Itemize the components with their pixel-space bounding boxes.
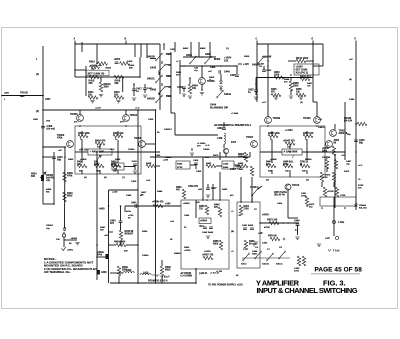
resistor R443	[274, 71, 284, 79]
label boxB low	[252, 250, 258, 256]
capacitor C418	[114, 59, 134, 65]
svg-text:+1 R4: +1 R4	[216, 270, 223, 273]
label +1 B44	[164, 100, 239, 155]
wire block stubs	[75, 58, 141, 78]
dots extra	[64, 65, 346, 246]
capacitor C446	[354, 139, 365, 145]
svg-text:+70L: +70L	[235, 169, 241, 171]
transistor TR421	[326, 139, 340, 147]
wire v220b	[219, 152, 221, 200]
svg-text:+100V: +100V	[114, 59, 121, 61]
transistor TR406 fet	[223, 148, 228, 157]
svg-text:L404: L404	[277, 202, 283, 205]
svg-text:R439: R439	[142, 230, 148, 233]
svg-text:2700: 2700	[294, 270, 300, 272]
capacitor C445	[202, 227, 214, 234]
diode CR404	[355, 200, 358, 207]
label left lead	[20, 92, 28, 98]
wire v317 stub	[313, 102, 317, 116]
svg-text:(4): (4)	[349, 78, 352, 81]
label v155 notes	[146, 118, 163, 193]
svg-text:5600: 5600	[213, 244, 219, 246]
svg-text:R434a 900: R434a 900	[114, 241, 126, 244]
wire h157 mid	[150, 152, 250, 161]
resistor R440	[119, 230, 134, 245]
label CR404b	[359, 204, 367, 209]
ground g3	[132, 98, 136, 100]
label mid belt	[165, 156, 247, 159]
svg-text:C433: C433	[177, 86, 183, 89]
transistor TR409	[265, 116, 281, 123]
resistor R708 cluster	[323, 187, 338, 197]
svg-text:A050: A050	[334, 139, 340, 142]
svg-text:R462: R462	[222, 188, 228, 191]
label row values L	[80, 139, 118, 149]
label boxA top	[183, 202, 200, 205]
diode CR446	[344, 117, 367, 126]
label +1 R44	[285, 129, 293, 132]
svg-text:C411: C411	[147, 87, 153, 90]
svg-text:TO R41 POWER SUPPLY +1/10: TO R41 POWER SUPPLY +1/10	[208, 284, 243, 287]
svg-text:(7): (7)	[122, 177, 125, 179]
capacitor C439	[217, 122, 226, 130]
svg-text:+C40: +C40	[112, 191, 118, 194]
wire left vertical spine	[42, 46, 44, 204]
label R408	[46, 188, 52, 193]
label H4 DIFFERENTIAL PREAMP	[214, 124, 252, 127]
svg-text:C449: C449	[294, 220, 300, 223]
svg-text:J400: J400	[33, 118, 39, 121]
svg-text:OR TERMINAL No.: OR TERMINAL No.	[44, 270, 71, 274]
wire v335 right	[334, 160, 336, 208]
svg-text:C447: C447	[211, 187, 217, 190]
bal row right 1	[266, 161, 276, 168]
junction box right	[320, 197, 356, 206]
svg-text:(2): (2)	[36, 74, 39, 76]
label +12V arrow	[238, 63, 249, 66]
label under amp L	[84, 177, 125, 179]
svg-text:(8): (8)	[266, 180, 269, 182]
junction dots ll	[96, 205, 163, 284]
label B402	[183, 47, 206, 50]
svg-text:C402: C402	[262, 242, 268, 245]
label CR401 vals	[46, 224, 54, 230]
svg-text:(5): (5)	[84, 177, 87, 179]
stub wires R	[260, 131, 325, 153]
svg-text:SET GAIN X0: SET GAIN X0	[88, 71, 105, 75]
capacitor C433	[177, 86, 186, 92]
svg-text:(2R1): (2R1)	[68, 250, 74, 252]
label h152 note	[110, 148, 135, 151]
resistor R438m	[146, 162, 156, 168]
wire v288b	[288, 200, 298, 218]
label v203 note	[196, 145, 210, 173]
diode CR402	[220, 74, 223, 91]
svg-text:+R470: +R470	[262, 214, 270, 217]
wire bal row	[124, 165, 238, 167]
svg-text:182: 182	[224, 59, 229, 62]
amp R inner stubs	[272, 140, 307, 177]
svg-text:56p: 56p	[347, 134, 351, 136]
svg-text:R476 56: R476 56	[268, 235, 277, 238]
transistor TR411 fet	[330, 124, 348, 136]
svg-text:J400: J400	[4, 92, 10, 95]
switch S404a	[216, 90, 231, 98]
svg-text:TACM 4: TACM 4	[250, 186, 259, 189]
svg-text:56p: 56p	[359, 143, 364, 145]
label v138 notes	[131, 180, 143, 197]
switch S403b2	[254, 246, 261, 259]
svg-text:+R458: +R458	[270, 158, 277, 161]
transistor TR420	[303, 116, 320, 123]
svg-text:+R436 470: +R436 470	[152, 201, 164, 204]
capacitor C411	[143, 84, 153, 97]
set gain box 2	[294, 64, 319, 75]
wire h223 delay line	[260, 222, 298, 224]
label M402	[214, 58, 221, 61]
svg-text:+R450: +R450	[183, 202, 190, 205]
label +5V 100	[79, 150, 88, 152]
switch bank wire	[242, 257, 290, 259]
svg-text:C436: C436	[210, 66, 216, 69]
label 0474	[231, 141, 237, 144]
transistor TR402	[62, 232, 77, 247]
svg-text:INPUT & CHANNEL SWITCHING: INPUT & CHANNEL SWITCHING	[257, 286, 358, 295]
wire h313-323	[313, 65, 323, 67]
svg-text:+R454: +R454	[200, 220, 208, 223]
ground g8	[299, 97, 303, 99]
component A408	[97, 270, 108, 275]
transistor TR404	[123, 110, 138, 121]
wire v97	[96, 44, 98, 58]
capacitor C440a	[97, 251, 109, 259]
svg-text:C709: C709	[340, 195, 346, 197]
wire h110 bus	[43, 109, 155, 111]
label delay	[274, 191, 287, 197]
capacitor C438m	[193, 159, 199, 169]
junction dots amps	[42, 95, 318, 127]
wire v334 lower	[333, 206, 335, 236]
label +1/5	[258, 233, 263, 235]
resistor R420	[99, 77, 111, 97]
svg-text:+5p: +5p	[346, 163, 350, 165]
amp block right box	[260, 126, 325, 177]
wire v75	[74, 44, 76, 77]
label A430	[99, 208, 105, 211]
resistor R447	[283, 140, 295, 146]
capacitor C408	[41, 125, 55, 131]
label C421	[259, 63, 265, 68]
label 7 C+2	[328, 249, 340, 253]
transistor TR410	[285, 184, 300, 200]
ground g6	[188, 96, 192, 98]
wire v241	[240, 177, 242, 202]
amp L row3 labels	[80, 158, 121, 161]
svg-text:C436b: C436b	[142, 254, 149, 257]
resistor R416	[114, 75, 124, 85]
svg-text:C435: C435	[196, 170, 202, 173]
resistor R455b	[213, 240, 223, 250]
resistor R456	[268, 132, 280, 138]
bottom left extra	[104, 214, 149, 257]
svg-text:R470: R470	[213, 154, 219, 157]
label J400	[33, 118, 51, 123]
svg-text:BLANKING DIP: BLANKING DIP	[210, 107, 228, 110]
svg-text:C432: C432	[132, 160, 138, 163]
svg-text:R452: R452	[238, 162, 244, 165]
label R414	[129, 64, 135, 69]
terminal stub A	[74, 38, 76, 45]
svg-text:CR403: CR403	[46, 224, 54, 227]
amp L inner stubs	[82, 140, 118, 174]
svg-text:+1R50: +1R50	[204, 251, 211, 253]
output box A	[181, 200, 229, 269]
wire h66 mid	[180, 65, 237, 67]
capacitor C441	[131, 202, 137, 208]
svg-text:2700: 2700	[301, 195, 307, 197]
bottom mid extra	[195, 199, 239, 284]
label J2p	[91, 67, 112, 71]
wire v345	[344, 102, 346, 160]
svg-text:R440b: R440b	[165, 156, 172, 159]
svg-text:TR420: TR420	[303, 117, 311, 120]
label R475	[309, 203, 315, 208]
amp R row3 labels	[270, 158, 312, 161]
capacitor C447	[206, 184, 217, 197]
svg-text:(ch-sel): (ch-sel)	[47, 128, 56, 131]
chain values	[166, 53, 172, 98]
svg-text:C418b: C418b	[128, 148, 135, 151]
wire h75 row	[75, 57, 140, 77]
resistor R452	[300, 75, 311, 80]
svg-text:R405: R405	[68, 158, 74, 161]
diode CR401 cluster	[41, 174, 54, 182]
svg-text:R456b: R456b	[174, 252, 181, 255]
terminal stub E	[355, 39, 357, 45]
wire v203	[202, 157, 204, 200]
label bal values L	[79, 171, 117, 173]
bal row left 1	[77, 161, 87, 168]
output box B	[237, 202, 260, 268]
mid top extra	[194, 56, 212, 73]
resistor R707 cluster	[322, 157, 338, 169]
pot R434 box	[112, 163, 124, 171]
wire ch1 bus77	[86, 76, 140, 78]
svg-text:C439: C439	[217, 127, 223, 130]
label right mid belt	[318, 119, 325, 129]
label R444	[284, 78, 290, 83]
label C436	[201, 65, 222, 69]
label +100V 182	[224, 57, 232, 63]
resistor R474	[320, 172, 335, 182]
svg-text:IK: IK	[300, 164, 303, 166]
switch S402D	[150, 83, 166, 94]
svg-text:470a: 470a	[126, 210, 132, 213]
bal row right 2	[283, 161, 294, 168]
svg-text:+R447 470: +R447 470	[283, 140, 295, 143]
svg-text:(3): (3)	[36, 111, 39, 113]
terminal stub B	[125, 39, 127, 45]
svg-text:TR410: TR410	[292, 184, 300, 187]
svg-text:C448: C448	[252, 250, 258, 253]
resistor R448c	[214, 204, 222, 218]
capacitor C422	[262, 66, 272, 72]
resistor R422	[78, 132, 90, 138]
svg-text:R461: R461	[252, 253, 258, 256]
svg-text:BRIGHT: BRIGHT	[125, 234, 134, 236]
svg-text:3300: 3300	[293, 85, 299, 88]
ground g12	[206, 236, 210, 238]
svg-text:2700: 2700	[244, 209, 250, 211]
svg-text:R701: R701	[283, 164, 289, 166]
svg-text:M024: M024	[106, 67, 112, 70]
resistor C451 pair	[301, 192, 309, 206]
wire ch1 v122	[122, 77, 124, 92]
switch S402m	[204, 53, 216, 64]
label R437c	[141, 191, 147, 196]
boxA divider	[196, 199, 253, 218]
svg-text:C422: C422	[266, 69, 272, 72]
wire ch2 bus77	[256, 77, 313, 79]
resistor R412 HF GAIN	[90, 64, 103, 68]
inductor L403	[110, 269, 134, 273]
svg-text:DELAY 40: DELAY 40	[274, 194, 285, 197]
svg-text:C449 470: C449 470	[188, 185, 199, 188]
label ch2 under	[262, 101, 303, 104]
wire S404 stub	[251, 186, 262, 201]
ground g7	[274, 97, 278, 99]
svg-text:R707 56: R707 56	[322, 157, 331, 159]
wire h152 left	[100, 151, 160, 153]
svg-text:R424 470: R424 470	[95, 140, 106, 143]
svg-text:C447b: C447b	[318, 126, 325, 129]
wire mid h57	[183, 56, 216, 58]
label C442	[112, 191, 132, 198]
junction dots ch1	[74, 63, 135, 85]
resistor R445	[271, 88, 281, 97]
svg-text:R472: R472	[344, 170, 350, 173]
wire v257	[256, 44, 258, 102]
capacitor C437m	[230, 74, 239, 77]
title FIG 3	[323, 279, 346, 288]
svg-text:C403: C403	[150, 67, 157, 70]
label R441c	[100, 226, 106, 231]
wire v140	[75, 42, 210, 58]
svg-text:TR408: TR408	[134, 137, 142, 140]
svg-text:(6): (6)	[104, 177, 107, 179]
svg-text:+5V 100: +5V 100	[79, 150, 88, 152]
right col extra1	[346, 160, 364, 189]
label spine notes	[36, 59, 51, 113]
label spine right notes	[349, 58, 363, 181]
label R431	[176, 71, 182, 76]
inductor L408	[217, 133, 225, 148]
inductor L410	[140, 272, 160, 276]
resistor C450 pair	[294, 256, 306, 272]
pot R446 box	[176, 161, 190, 169]
resistor R452m	[238, 162, 248, 168]
svg-text:X10 (FIG 2): X10 (FIG 2)	[296, 72, 309, 75]
svg-text:500: 500	[31, 175, 36, 178]
jack J2	[332, 220, 344, 224]
svg-text:C440: C440	[224, 71, 230, 74]
svg-text:R423 910: R423 910	[113, 132, 124, 135]
wire CH2 top bus	[257, 43, 323, 45]
wire v323	[322, 44, 324, 66]
svg-text:2200: 2200	[274, 75, 280, 77]
transistor TR403 fet	[57, 134, 73, 147]
label TO R41 POWER	[208, 284, 243, 287]
svg-text:56p: 56p	[57, 159, 62, 162]
svg-text:C438: C438	[193, 159, 199, 162]
svg-text:L403: L403	[126, 269, 132, 272]
svg-text:56p: 56p	[243, 157, 247, 159]
svg-text:C402F1: C402F1	[164, 128, 173, 131]
label 2R1 vals	[56, 239, 72, 245]
svg-text:R456 100k: R456 100k	[268, 132, 280, 135]
svg-text:C418: C418	[127, 60, 133, 63]
svg-text:TR404: TR404	[130, 114, 138, 117]
wire to TR403 fet	[43, 146, 66, 148]
svg-text:+R457 720: +R457 720	[202, 254, 214, 257]
svg-text:C401: C401	[170, 48, 176, 51]
jack J3	[325, 236, 339, 240]
wire right spine v356	[355, 44, 357, 210]
notes text	[44, 257, 97, 274]
svg-text:C420: C420	[131, 180, 137, 183]
resistor R430	[238, 152, 248, 162]
wire h152 right	[325, 151, 345, 153]
label right vals	[340, 134, 351, 197]
svg-text:R427: R427	[94, 163, 100, 166]
svg-text:+R708: +R708	[327, 191, 334, 193]
label lowmid	[198, 188, 234, 197]
svg-text:S402D: S402D	[147, 98, 155, 101]
label -2.5V	[62, 247, 74, 252]
resistor R421a	[114, 91, 124, 103]
switch S403c	[262, 249, 274, 266]
capacitor C449	[294, 220, 300, 236]
wire h245	[109, 244, 139, 246]
resistor R424	[95, 140, 106, 146]
label midtop notes	[170, 48, 250, 63]
amp block left box	[75, 126, 141, 174]
svg-text:TR407: TR407	[246, 136, 254, 139]
resistor R409	[63, 172, 74, 182]
bal row left 2	[94, 161, 104, 168]
junction dots ch2	[255, 60, 314, 85]
svg-text:C425: C425	[148, 118, 154, 121]
svg-text:B402: B402	[183, 47, 189, 50]
svg-text:+1/5: +1/5	[258, 233, 263, 235]
label tr values L	[74, 121, 124, 124]
label under amp R	[266, 180, 309, 182]
wire v313	[312, 44, 314, 102]
resistor R413	[89, 75, 99, 85]
svg-text:C430b: C430b	[203, 148, 210, 151]
wire v97 lower	[96, 152, 98, 280]
svg-text:+4.5: +4.5	[325, 237, 330, 240]
svg-text:S402: S402	[205, 53, 211, 56]
wire h257b	[97, 256, 109, 258]
label boxA mid	[184, 214, 190, 229]
svg-text:R429: R429	[244, 55, 250, 58]
capacitor C432	[132, 160, 138, 173]
svg-text:BA-154: BA-154	[344, 120, 353, 123]
set gain box	[86, 70, 109, 75]
junction dots lc	[42, 95, 66, 229]
pot GAIN left	[88, 149, 112, 158]
